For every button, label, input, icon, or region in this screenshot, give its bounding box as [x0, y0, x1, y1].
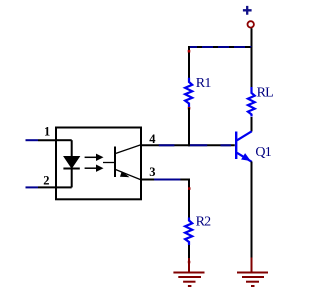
LED cathode lead — [71, 169, 73, 188]
LED cathode bar — [63, 168, 79, 170]
transistor Q1 emitter — [237, 153, 252, 162]
wire Q1 emitter down — [251, 162, 253, 259]
wire pin3 to R2 corner — [154, 179, 180, 181]
svg-text:R1: R1 — [196, 76, 212, 91]
svg-text:Q1: Q1 — [255, 145, 271, 160]
svg-text:4: 4 — [149, 132, 156, 146]
resistor RL leads top — [251, 47, 253, 88]
junction dot R2 bottom — [188, 261, 191, 264]
light arrow upper — [85, 156, 97, 158]
resistor RL — [248, 87, 255, 117]
wire pin4 line to Q1 base — [141, 144, 235, 146]
phototransistor collector — [116, 145, 141, 154]
pin 2 stub — [38, 186, 56, 188]
phototransistor emitter arrow — [120, 171, 130, 177]
wire circle to rail — [251, 28, 253, 47]
svg-text:RL: RL — [257, 86, 274, 101]
wire pin2 internal — [56, 186, 72, 188]
plus terminal symbol — [243, 6, 252, 15]
wire RL bottom to Q1 collector — [251, 117, 253, 132]
svg-text:3: 3 — [149, 165, 155, 179]
wire node to Q1 base — [188, 144, 207, 146]
wire top dashes — [197, 46, 252, 48]
wire pin4 to node — [159, 144, 175, 146]
wire R1 top lead — [188, 46, 190, 79]
wire R2 bottom lead — [188, 245, 190, 259]
wire R1 bottom lead — [188, 108, 190, 146]
svg-text:R2: R2 — [196, 214, 212, 229]
ground GND1 — [173, 258, 204, 286]
optocoupler U box — [56, 128, 141, 200]
wire pin3 line to R2 branch — [141, 179, 190, 181]
junction dot R1 bottom — [188, 107, 191, 110]
ground GND2 — [237, 258, 268, 287]
transistor Q1 emitter arrow — [241, 153, 251, 161]
transistor Q1 base bar — [235, 132, 237, 160]
resistor R1 — [185, 78, 192, 107]
phototransistor emitter — [116, 170, 141, 180]
hotspot dot top corner — [188, 50, 191, 53]
terminal circle — [248, 21, 254, 27]
phototransistor base bar — [114, 147, 116, 178]
wire top horizontal — [188, 46, 252, 48]
svg-text:1: 1 — [44, 125, 50, 139]
light arrow lower — [85, 167, 97, 169]
svg-text:2: 2 — [43, 174, 49, 188]
resistor R2 — [185, 218, 192, 246]
junction dot pin3 corner — [188, 187, 191, 190]
wire pin2 external — [26, 186, 39, 188]
phototransistor base lead — [103, 162, 115, 164]
LED D1 triangle — [64, 157, 79, 169]
Q1 base pin wire — [221, 144, 232, 146]
wire pin1 external — [26, 139, 39, 141]
transistor Q1 collector — [237, 131, 252, 140]
wire R2 top lead — [188, 179, 190, 219]
LED anode lead — [71, 140, 73, 157]
pin 1 stub — [38, 139, 56, 141]
wire pin1 internal — [56, 139, 72, 141]
